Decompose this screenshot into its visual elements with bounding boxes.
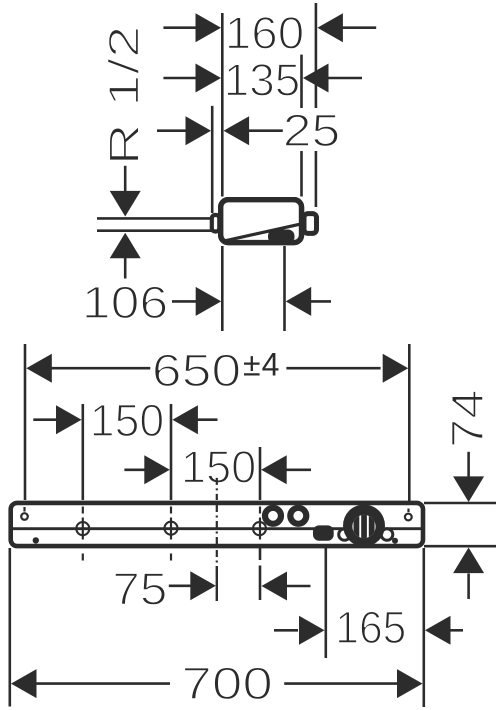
dim 25 tail right [247, 129, 283, 132]
hole 2 centerline solid [170, 518, 172, 540]
bar centerline dash-dot below bar [216, 550, 218, 564]
hole 3 centerline dash [259, 507, 261, 514]
dim 150b line below bar a [259, 548, 262, 560]
knob ring 2 [290, 508, 306, 524]
svg-text:160: 160 [225, 7, 305, 58]
valve right connector [304, 214, 317, 234]
dim 25 arrow right (points left) [224, 116, 250, 145]
dim 150a arrow left (points right) [56, 405, 82, 434]
svg-text:74: 74 [442, 389, 493, 448]
svg-text:700: 700 [181, 658, 273, 709]
dim 700 line right [284, 682, 399, 685]
dim 106 tail left [172, 300, 198, 303]
dim 150b line below bar b [259, 566, 262, 601]
dim 150b arrow left (points right) [144, 455, 170, 484]
dim 650 extension line left [24, 344, 27, 500]
shower bar body [11, 503, 423, 546]
hole 3 centerline solid [259, 518, 261, 540]
dim 650 extension line right [408, 344, 411, 501]
hole 1 centerline dash below bar [82, 554, 84, 561]
knob ring 1 [265, 508, 281, 524]
pipe gap arrow down [110, 191, 141, 217]
dim 74 extension line bottom [424, 545, 496, 548]
holder ear right [381, 529, 393, 541]
right bottom set screw [392, 538, 398, 544]
dim 165 arrow right (points left) [425, 616, 451, 645]
dim 700 arrow right (points right) [397, 669, 423, 698]
dim 75 tail left [169, 584, 192, 587]
extension line short (x=212.2) [211, 106, 214, 213]
pipe gap vertical dim line upper [124, 166, 127, 193]
valve lever diagonal [226, 224, 301, 241]
dim 75 arrow left (points right) [190, 571, 216, 600]
dim 25 tail left [157, 129, 188, 132]
dim 160 tail left [163, 26, 198, 29]
bar divider line [12, 527, 421, 530]
holder ear left [339, 529, 351, 541]
dim 150a+b shared extension line [170, 404, 173, 500]
centerline stub below 75 arrow [216, 566, 218, 601]
left bottom set screw [33, 537, 39, 543]
extension line B135 (x=301.5) upper [300, 55, 303, 108]
dim 75 arrow right (points left) [262, 572, 288, 601]
dim 650 arrow left (points left) [26, 354, 52, 383]
mounting hole crosshair 2 [165, 522, 178, 535]
valve handle bump [268, 230, 295, 244]
handle disc [343, 505, 385, 547]
left end screw hole [21, 513, 28, 520]
dim 165 tail right [448, 629, 463, 632]
dim 700 line left [34, 682, 170, 685]
extension line B135 lower [300, 151, 303, 197]
svg-text:165: 165 [335, 602, 406, 653]
dim 150a extension line left [82, 404, 85, 500]
dim 74 lower line [467, 574, 470, 600]
pipe line bottom [97, 229, 212, 232]
dim 160 tail right [340, 26, 376, 29]
dim 700 extension line left [9, 548, 12, 707]
svg-text:25: 25 [283, 105, 341, 156]
mounting hole crosshair 3 [253, 522, 266, 535]
bar centerline (dash-dot) above bar [216, 478, 218, 500]
dim 135 arrow right [303, 64, 329, 93]
dim 150b arrow right (points left) [261, 455, 287, 484]
dim 150b tail left [124, 468, 146, 471]
dim 135 arrow left [196, 64, 222, 93]
mounting hole crosshair 1 [76, 522, 89, 535]
dim 165 tail left [274, 629, 298, 632]
dim 74 upper line [467, 452, 470, 479]
dim 135 tail left [163, 77, 198, 80]
svg-text:±4: ±4 [243, 347, 280, 383]
dim 150a arrow right (points left) [172, 405, 198, 434]
left end hole centerline dash [23, 507, 25, 512]
dim 150b tail right [284, 468, 311, 471]
svg-text:150: 150 [181, 442, 257, 493]
svg-text:650: 650 [152, 345, 242, 396]
right end hole centerline dash [407, 509, 409, 513]
dim 75 tail right [285, 585, 311, 588]
svg-text:135: 135 [224, 55, 301, 106]
svg-text:106: 106 [82, 277, 169, 328]
hole 1 centerline solid [82, 518, 84, 540]
outlet block [313, 525, 334, 540]
dim 74 extension line top [424, 502, 496, 505]
dim 106 arrow right (points left) [286, 287, 312, 316]
extension line A (x=222.3) [221, 13, 224, 197]
dim 106 extension line left [221, 246, 224, 331]
dim 106 tail right [309, 300, 331, 303]
dim 74 arrow down [453, 476, 484, 502]
bar centerline dash-dot in bar [216, 505, 218, 544]
dim 74 arrow up [453, 548, 484, 574]
dim 135 tail right [326, 77, 362, 80]
extension line B160 lower [315, 151, 318, 207]
dim 106 arrow left (points right) [196, 287, 222, 316]
dim 150a tail right [195, 418, 217, 421]
dim 650 line left [49, 367, 150, 370]
dim 165 arrow left (points right) [299, 616, 325, 645]
dim 650 line right [286, 367, 380, 370]
dim 160 arrow left [196, 13, 222, 42]
dim 150a tail left [33, 418, 58, 421]
right end screw hole [405, 514, 412, 521]
svg-text:75: 75 [112, 563, 167, 614]
svg-text:150: 150 [90, 395, 165, 446]
svg-text:R 1/2: R 1/2 [102, 26, 149, 166]
hole 2 centerline dash [170, 507, 172, 514]
valve body outline [221, 200, 302, 243]
dim 700 arrow left (points left) [11, 669, 37, 698]
dim 150b extension line right [259, 447, 262, 500]
dim 650 arrow right (points right) [383, 354, 409, 383]
valve left tab [212, 215, 220, 232]
handle grip stripes [354, 514, 375, 539]
dim 106 extension line right [283, 246, 286, 331]
pipe line top [97, 217, 212, 220]
dim 25 arrow left (points right) [186, 116, 212, 145]
handle inner face [352, 515, 375, 538]
extension line B160 (x=315.9) upper [315, 3, 318, 108]
valve body outline redraw (over tab) [221, 200, 302, 243]
pipe gap arrow up [110, 233, 141, 259]
dim 160 arrow right [317, 13, 343, 42]
hole 1 centerline dash [82, 507, 84, 514]
hole 2 centerline dash below bar [170, 554, 172, 561]
pipe gap vertical dim line lower [124, 258, 127, 279]
dim 165/700 shared extension line right [422, 548, 425, 707]
dim 165 extension line left [324, 548, 327, 658]
